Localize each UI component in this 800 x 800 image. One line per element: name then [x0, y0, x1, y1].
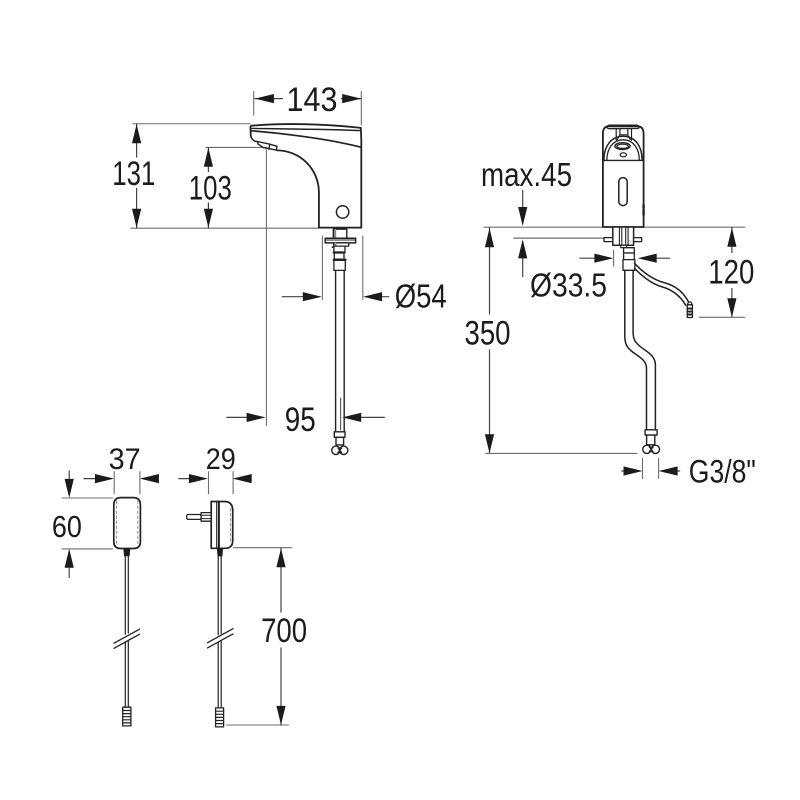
faucet right edge	[360, 128, 363, 228]
dim O33.5 leader left	[580, 257, 595, 259]
PSU2 seam line	[218, 502, 220, 549]
PSU2 collar lines	[201, 515, 211, 518]
dim 60 lower arrow+line	[68, 568, 70, 578]
arch outer	[604, 136, 642, 160]
dim 37 leader	[84, 478, 96, 480]
pipe section 2	[624, 253, 635, 260]
cap separation line	[603, 159, 644, 161]
dim O54 arrows	[303, 292, 322, 301]
dim 120 line	[731, 227, 733, 317]
svg-text:131: 131	[112, 155, 155, 193]
dim 120 arrows	[727, 228, 736, 247]
pipe bottom sleeve	[647, 435, 655, 445]
dim 120 bottom extension	[699, 316, 744, 318]
faucet swoosh curve	[252, 131, 361, 147]
dim 131 line	[136, 124, 138, 228]
dim 700 arrows	[276, 548, 285, 567]
svg-text:max.45: max.45	[481, 156, 572, 193]
hose end cross mark	[338, 448, 342, 453]
mounting flange	[325, 238, 355, 243]
dim 700 ext top	[234, 547, 292, 549]
svg-text:G3/8": G3/8"	[689, 453, 756, 489]
dim 37 ext right	[139, 472, 141, 494]
right edge ticks	[642, 205, 644, 215]
svg-text:143: 143	[287, 81, 338, 119]
dim 350 line	[489, 228, 491, 453]
faucet spout top edge	[250, 124, 360, 136]
svg-text:29: 29	[206, 443, 236, 476]
pipe bottom nut	[645, 430, 657, 435]
hose inner line	[340, 398, 342, 430]
hose end sleeve	[336, 437, 344, 445]
dim 37 arrows	[95, 474, 114, 483]
nut 3	[334, 259, 345, 270]
counter bottom line	[514, 237, 604, 239]
pipe nut	[623, 260, 635, 271]
supply hose left line	[335, 270, 337, 431]
dim max45 upper line+arrow	[522, 191, 524, 224]
body window	[619, 178, 627, 206]
dim 95 leader right	[361, 416, 384, 418]
dim 29 ext left	[208, 472, 210, 494]
dim 131 extension top	[133, 123, 250, 125]
flange inner line	[326, 239, 356, 241]
PSU1 connector	[123, 707, 131, 726]
nut 2 bold top	[334, 251, 345, 253]
PSU2 cable	[218, 556, 221, 708]
channel lines	[616, 129, 631, 140]
dim O33.5 arrows	[594, 254, 613, 263]
PSU2 connector	[216, 708, 224, 727]
small screw dot	[332, 246, 334, 248]
dim 95 extension vertical	[265, 150, 267, 426]
hose end ball left	[332, 446, 340, 454]
nut 2	[334, 252, 344, 259]
dim 60 upper line+arrow	[68, 471, 70, 479]
svg-text:Ø54: Ø54	[395, 277, 447, 314]
long pipe right edge	[633, 270, 655, 430]
PSU2 cable break	[208, 629, 234, 648]
dim 143 line	[255, 98, 361, 100]
counter line right segment	[644, 226, 745, 228]
mounting tab left	[604, 238, 613, 242]
pipe end ball left	[643, 445, 651, 453]
svg-text:120: 120	[708, 254, 754, 292]
dim 60 ext bottom	[62, 548, 113, 550]
dim 143 extension line left	[253, 91, 255, 115]
svg-text:60: 60	[52, 509, 82, 544]
mounting tab right	[634, 238, 642, 242]
dim 103 line	[207, 148, 209, 228]
PSU2 texture	[229, 509, 231, 543]
led dot	[620, 153, 626, 157]
dim 95 arrows	[247, 413, 266, 422]
dim G3/8 leader left	[622, 470, 625, 472]
aerator facet line	[268, 144, 271, 149]
PSU1 texture left	[115, 501, 117, 546]
counter line left segment	[484, 226, 603, 228]
nozzle ellipse inner	[617, 144, 629, 148]
shank threaded rod	[334, 230, 336, 238]
PSU1 neck	[123, 549, 130, 557]
PSU1 connector ridges	[123, 711, 130, 723]
dim 700 ext bottom	[227, 724, 289, 726]
dim 143 extension line right	[360, 91, 362, 125]
dim 29 arrows	[189, 474, 208, 483]
dim 60 ext top	[62, 497, 113, 499]
dim 95 leader left	[227, 416, 247, 418]
dim 37 ext left	[113, 472, 115, 494]
dim O33.5 tick	[613, 250, 615, 266]
connector bands	[688, 309, 693, 315]
supply hose right line	[343, 270, 345, 431]
dim 350 bottom extension	[486, 452, 637, 454]
dim 350 arrows	[485, 228, 494, 247]
PSU2 connector ridges	[216, 711, 223, 723]
PSU1 texture right	[137, 501, 139, 546]
dim O54 extension right	[362, 236, 364, 300]
collar rod mark	[334, 243, 336, 246]
nozzle ellipse outer	[615, 143, 630, 150]
PSU2 pin collar	[201, 513, 211, 522]
dim G3/8 arrows	[624, 466, 643, 475]
faucet spout second line	[251, 128, 361, 130]
dim G3/8 tick left	[642, 459, 644, 479]
shank	[613, 227, 634, 245]
dim 131/103 extension bottom	[131, 227, 319, 229]
dim 29 leader	[179, 478, 190, 480]
PSU2 face line	[216, 502, 218, 549]
short suction hose upper line	[635, 263, 690, 304]
dim 131 arrows	[132, 124, 141, 143]
sensor circle	[336, 206, 348, 218]
dim O54 leader left	[282, 296, 303, 298]
dim G3/8 tick right	[658, 459, 660, 479]
dim G3/8 leader right	[677, 470, 679, 472]
faucet base line	[319, 227, 361, 229]
nut 1	[334, 246, 345, 252]
PSU2 body	[211, 502, 233, 549]
dim 700 line	[280, 548, 282, 725]
nut 3 bold top	[334, 259, 346, 261]
PSU1 cable	[125, 556, 128, 707]
dispenser head body	[603, 126, 644, 227]
collar under flange	[334, 243, 349, 246]
dim O33.5 leader right	[655, 257, 670, 259]
top slot outline	[607, 125, 639, 129]
PSU1 body	[114, 498, 141, 549]
suction hose connector	[687, 302, 692, 305]
svg-text:37: 37	[109, 443, 141, 476]
dim O54 extension left	[321, 236, 323, 300]
svg-text:103: 103	[189, 170, 232, 208]
short suction hose lower line	[635, 268, 686, 305]
dim max45 lower arrow+line	[522, 242, 524, 277]
faucet body left edge and bottom contour	[277, 150, 319, 227]
svg-text:95: 95	[285, 401, 316, 439]
pipe section 1	[624, 248, 635, 253]
pipe end cross mark	[649, 447, 653, 452]
PSU1 cable break	[114, 629, 140, 648]
pipe end ball right	[651, 445, 659, 453]
dim 143 arrows	[255, 94, 274, 103]
dim 103 extension top	[206, 146, 267, 148]
svg-text:700: 700	[261, 612, 307, 650]
faucet tip underside	[251, 136, 258, 142]
aerator outlet	[258, 142, 277, 151]
PSU2 pin	[187, 515, 201, 520]
dim 29 ext right	[232, 472, 234, 494]
arch inner	[607, 140, 639, 160]
stub under shank	[621, 245, 627, 247]
svg-text:350: 350	[465, 315, 511, 353]
dim O54 leader right	[382, 296, 389, 298]
shank below base	[333, 229, 347, 238]
dim 103 arrows	[204, 148, 213, 167]
hose end ball right	[340, 446, 348, 454]
long pipe left edge	[625, 270, 647, 430]
PSU2 neck	[217, 548, 223, 556]
shank inner tubes	[619, 228, 628, 246]
hose end nut	[334, 432, 345, 438]
svg-text:Ø33.5: Ø33.5	[530, 266, 607, 303]
